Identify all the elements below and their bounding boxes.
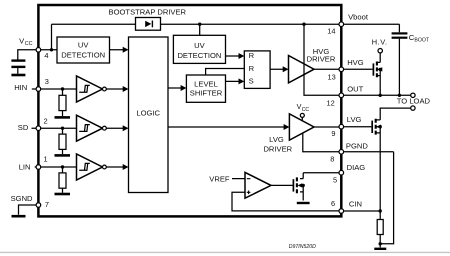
svg-text:DETECTION: DETECTION bbox=[177, 51, 221, 60]
svg-text:1: 1 bbox=[44, 155, 48, 164]
svg-text:TO LOAD: TO LOAD bbox=[397, 97, 431, 106]
svg-text:Vboot: Vboot bbox=[348, 12, 369, 21]
svg-text:OUT: OUT bbox=[347, 85, 363, 94]
svg-text:HVG: HVG bbox=[347, 58, 364, 67]
svg-text:SHIFTER: SHIFTER bbox=[190, 88, 223, 97]
svg-text:DRIVER: DRIVER bbox=[307, 55, 336, 64]
svg-text:CC: CC bbox=[25, 41, 33, 47]
svg-text:LEVEL: LEVEL bbox=[194, 79, 218, 88]
svg-text:4: 4 bbox=[44, 51, 48, 60]
svg-text:VREF: VREF bbox=[209, 175, 230, 184]
svg-text:12: 12 bbox=[327, 98, 335, 107]
svg-text:UV: UV bbox=[194, 41, 205, 50]
svg-text:2: 2 bbox=[44, 116, 48, 125]
svg-text:S: S bbox=[249, 77, 254, 86]
svg-text:3: 3 bbox=[45, 77, 49, 86]
svg-text:5: 5 bbox=[333, 176, 337, 185]
svg-text:BOOTSTRAP DRIVER: BOOTSTRAP DRIVER bbox=[109, 7, 187, 16]
svg-text:CC: CC bbox=[302, 107, 310, 113]
svg-text:LIN: LIN bbox=[19, 163, 31, 172]
svg-text:LVG: LVG bbox=[347, 115, 362, 124]
svg-text:UV: UV bbox=[78, 41, 89, 50]
svg-text:LVG: LVG bbox=[269, 135, 284, 144]
svg-text:D97IN520D: D97IN520D bbox=[289, 244, 316, 250]
svg-text:9: 9 bbox=[331, 129, 335, 138]
svg-text:SGND: SGND bbox=[11, 194, 33, 203]
svg-text:DETECTION: DETECTION bbox=[61, 51, 105, 60]
svg-text:SD: SD bbox=[18, 123, 29, 132]
svg-text:7: 7 bbox=[45, 200, 49, 209]
svg-text:8: 8 bbox=[330, 155, 334, 164]
svg-text:BOOT: BOOT bbox=[414, 38, 430, 44]
svg-text:13: 13 bbox=[328, 73, 336, 82]
svg-text:14: 14 bbox=[327, 27, 335, 36]
svg-text:6: 6 bbox=[331, 199, 335, 208]
svg-text:H.V.: H.V. bbox=[372, 37, 388, 46]
svg-text:R: R bbox=[249, 64, 255, 73]
svg-text:CIN: CIN bbox=[349, 199, 362, 208]
svg-text:DRIVER: DRIVER bbox=[263, 145, 292, 154]
svg-text:PGND: PGND bbox=[346, 141, 368, 150]
svg-text:HIN: HIN bbox=[14, 83, 27, 92]
svg-text:R: R bbox=[249, 51, 255, 60]
svg-text:DIAG: DIAG bbox=[347, 163, 366, 172]
svg-text:LOGIC: LOGIC bbox=[136, 109, 160, 118]
